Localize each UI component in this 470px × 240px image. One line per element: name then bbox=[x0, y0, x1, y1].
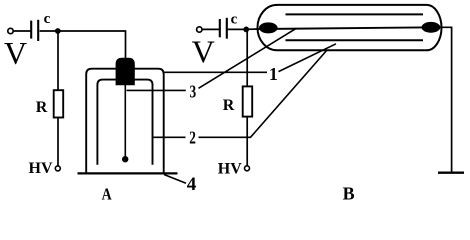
capacitor C2 right plate bbox=[226, 18, 228, 39]
wire node N2 to counter B left plug bbox=[246, 28, 263, 30]
leader line for label 4 (to chamber A base) bbox=[164, 175, 186, 184]
leader line for label 3 (to chamber A anode) bbox=[127, 89, 186, 91]
ground bar (circuit B) bbox=[438, 172, 464, 174]
counter tube B outer envelope bbox=[258, 5, 442, 50]
label A (figure A) bbox=[102, 185, 113, 204]
svg-text:1: 1 bbox=[269, 64, 278, 84]
chamber A outer electrode wall bbox=[86, 69, 164, 174]
resistor R1 bbox=[54, 90, 64, 117]
capacitor C1 left plate bbox=[30, 21, 32, 39]
wire J2 to capacitor C2 bbox=[202, 28, 219, 30]
wire node N1 to anode plug of chamber A bbox=[58, 31, 126, 59]
resistor R2 bbox=[243, 86, 253, 116]
node N1 junction dot bbox=[55, 28, 61, 34]
svg-text:B: B bbox=[343, 183, 355, 203]
HV terminal circle (circuit A) bbox=[55, 166, 60, 171]
node N2 junction dot bbox=[243, 27, 249, 33]
wire node N2 down to resistor R2 bbox=[246, 30, 248, 87]
svg-text:HV: HV bbox=[218, 161, 242, 178]
wire J1 to capacitor C1 bbox=[13, 30, 31, 32]
anode tip bead (chamber A) bbox=[122, 156, 128, 162]
insulator plug of chamber A bbox=[116, 58, 135, 86]
input terminal J1 (circuit A) bbox=[8, 28, 13, 33]
counter tube B left insulator plug bbox=[259, 22, 278, 33]
capacitor C1 right plate bbox=[37, 20, 39, 41]
capacitor C2 left plate bbox=[219, 19, 221, 37]
anode wire (chamber A) bbox=[124, 85, 126, 157]
chamber A inner electrode wall bbox=[97, 80, 152, 165]
wire C2 to node N2 bbox=[228, 28, 246, 30]
counter tube B anode wire bbox=[262, 27, 437, 29]
label 2 bbox=[189, 129, 196, 148]
svg-text:2: 2 bbox=[189, 129, 196, 148]
label 3 bbox=[189, 83, 196, 102]
counter tube B cathode cylinder bottom line bbox=[286, 39, 424, 41]
svg-text:A: A bbox=[102, 185, 113, 204]
wire counter B right plug to ground bbox=[437, 27, 452, 171]
svg-text:HV: HV bbox=[29, 160, 53, 177]
svg-text:V: V bbox=[192, 34, 215, 70]
svg-text:3: 3 bbox=[189, 83, 196, 102]
wire R1 to HV terminal (circuit A) bbox=[57, 118, 59, 167]
svg-text:c: c bbox=[231, 12, 238, 28]
leader line for label 3 (to counter B anode wire) bbox=[199, 28, 297, 88]
svg-text:c: c bbox=[44, 11, 51, 27]
HV terminal circle (circuit B) bbox=[245, 166, 250, 171]
wire C1 to node N1 bbox=[40, 30, 58, 32]
counter tube B right insulator plug bbox=[422, 22, 441, 33]
leader line for label 2 (to counter B envelope) bbox=[199, 51, 327, 138]
leader line for label 2 (to chamber A inner wall) bbox=[154, 136, 186, 138]
chamber A base line bbox=[78, 172, 178, 174]
wire node N1 down to resistor R1 bbox=[57, 31, 59, 91]
leader line for label 1 (to chamber A wall) bbox=[165, 71, 268, 73]
leader line for label 1 (to counter B inner wall) bbox=[279, 44, 337, 72]
svg-text:4: 4 bbox=[187, 174, 197, 195]
counter tube B cathode cylinder top line bbox=[286, 13, 424, 15]
svg-text:R: R bbox=[36, 99, 48, 116]
wire R2 to HV terminal (circuit B) bbox=[246, 117, 248, 166]
svg-text:R: R bbox=[223, 97, 235, 114]
svg-text:V: V bbox=[4, 35, 27, 71]
input terminal J2 (circuit B) bbox=[197, 27, 202, 32]
